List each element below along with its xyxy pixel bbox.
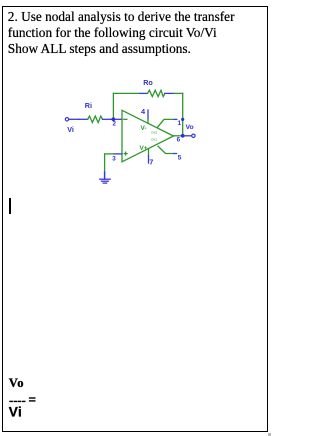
svg-text:Vo: Vo (9, 376, 24, 390)
wire feedback left vertical (112, 93, 114, 119)
pin 1 (offset null) (158, 119, 177, 127)
node 2 junction (112, 117, 116, 121)
pin 7 (148, 149, 150, 163)
wire feedback right vertical (182, 93, 184, 135)
wire Ri to node 2 (111, 118, 113, 120)
pin 4 (147, 110, 149, 123)
svg-text:V+: V+ (140, 145, 148, 152)
terminal Vo (192, 134, 195, 137)
svg-text:Ro: Ro (143, 78, 153, 87)
svg-text:6: 6 (177, 137, 181, 144)
svg-text:Vo: Vo (186, 124, 194, 131)
svg-text:Vi: Vi (9, 405, 23, 420)
svg-text:Vi: Vi (67, 125, 74, 134)
svg-text:4: 4 (141, 107, 146, 116)
wire op-amp output to node 6 (174, 135, 183, 137)
resistor Ro (140, 90, 174, 96)
resistor Ri (88, 116, 111, 122)
junction on feedback wire at pin 1 level (181, 118, 184, 121)
fraction Vo over Vi (9, 376, 36, 419)
wire op-amp non-inverting input to ground (105, 154, 122, 172)
svg-text:2: 2 (113, 121, 117, 128)
ground (100, 172, 111, 183)
wire node 6 to terminal Vo (183, 135, 192, 137)
svg-text:Ri: Ri (85, 101, 92, 110)
node 6 junction (181, 134, 185, 138)
wire feedback top left (113, 92, 139, 94)
terminal Vi (65, 118, 79, 121)
svg-text:7: 7 (149, 157, 153, 166)
text cursor (9, 198, 11, 214)
wire feedback top right (174, 92, 183, 94)
svg-text:5: 5 (178, 155, 182, 162)
wire node 2 to op-amp inverting input (113, 118, 122, 120)
svg-text:3: 3 (112, 155, 116, 162)
svg-text:V-: V- (141, 125, 147, 132)
op-amp U1 (122, 110, 174, 162)
svg-text:OS2: OS2 (151, 130, 157, 134)
wire Vi to Ri (79, 118, 88, 120)
gray corner mark (268, 433, 271, 436)
problem statement text (8, 9, 260, 57)
svg-text:OS1: OS1 (151, 138, 157, 142)
pin 5 (offset null) (158, 146, 177, 153)
svg-text:1: 1 (177, 120, 181, 127)
